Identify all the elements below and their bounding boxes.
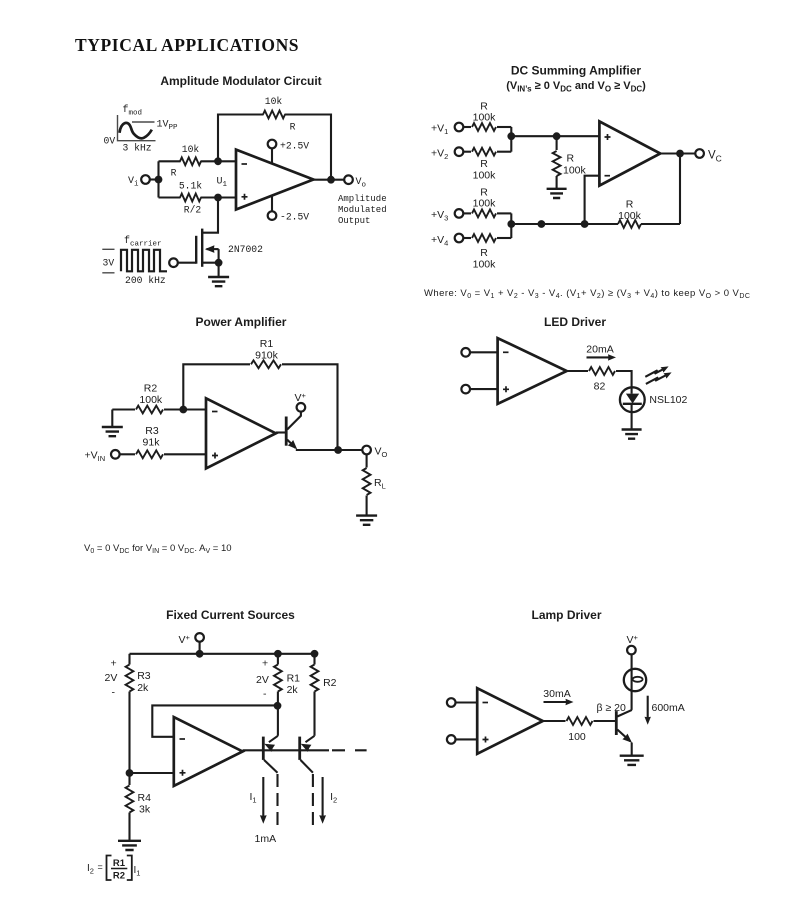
svg-text:fcarrier: fcarrier <box>124 235 162 249</box>
label 0V <box>104 136 116 147</box>
label R1 <box>260 338 274 350</box>
svg-text:R3: R3 <box>145 425 159 437</box>
lamp L1 <box>624 669 646 691</box>
label 100k (feedback U2) <box>618 210 642 222</box>
wire Q4 collector dashed <box>312 774 314 829</box>
resistor R 100k feedback <box>618 220 641 228</box>
wire to plus input <box>130 772 174 774</box>
svg-text:+V4: +V4 <box>431 234 448 248</box>
wire U3 output to base <box>276 431 286 433</box>
resistor R 100k (+V4) <box>472 234 496 242</box>
f_carrier reference levels <box>102 249 114 272</box>
svg-text:20mA: 20mA <box>586 344 613 356</box>
node rail R2 <box>311 650 319 658</box>
label +V2 <box>431 148 448 162</box>
svg-text:LED Driver: LED Driver <box>544 315 606 329</box>
resistor R1 2k (sources) <box>274 665 282 692</box>
wire Q1 source <box>202 262 218 264</box>
label 2V (R1) <box>256 674 269 686</box>
svg-text:100k: 100k <box>473 198 497 210</box>
label I2 <box>330 791 337 805</box>
svg-text:R3: R3 <box>137 670 151 682</box>
svg-text:R1: R1 <box>287 673 301 685</box>
ground R2 <box>102 410 123 437</box>
node V3/V4 join rail <box>507 220 515 228</box>
wire lamp non-inverting input <box>456 738 478 740</box>
node Q1 source <box>215 259 223 267</box>
arrow 600mA <box>645 696 651 725</box>
resistor R1 910k <box>251 360 281 368</box>
title condition line <box>506 80 646 94</box>
label f_carrier <box>124 235 162 249</box>
label 3V <box>103 258 115 269</box>
wire shunt R bottom <box>556 176 558 189</box>
plus sign U5 <box>180 770 186 776</box>
label R3 <box>145 425 159 437</box>
label I1 <box>250 791 257 805</box>
label R (+V3) <box>480 187 488 199</box>
wire inverting input leg <box>585 176 600 224</box>
svg-text:82: 82 <box>594 381 606 393</box>
svg-text:-: - <box>112 687 116 699</box>
svg-text:+: + <box>111 658 117 670</box>
svg-text:V0 = 0 VDC for VIN = 0 VDC. AV: V0 = 0 VDC for VIN = 0 VDC. AV = 10 <box>84 543 232 555</box>
wire U5 output line <box>243 749 329 751</box>
svg-text:VO: VO <box>375 446 388 460</box>
label R (+V4) <box>480 247 488 259</box>
wire R3 left <box>120 453 135 455</box>
resistor 82 <box>589 367 615 375</box>
minus sign U4 <box>503 351 509 353</box>
resistor RL <box>363 468 371 495</box>
ground LED <box>622 430 642 439</box>
op-amp U3 <box>206 398 276 468</box>
ground Q1 source <box>208 263 229 287</box>
svg-text:+VIN: +VIN <box>85 450 106 464</box>
svg-text:R/2: R/2 <box>184 205 202 216</box>
plus sign U2 <box>605 134 611 140</box>
svg-text:3V: 3V <box>103 258 115 269</box>
svg-text:I1: I1 <box>250 791 257 805</box>
wire +V2 lead <box>463 151 511 153</box>
label VO (power amp) <box>375 446 388 460</box>
svg-text:R: R <box>626 199 634 211</box>
wire feedback right leg <box>679 154 681 225</box>
svg-text:fmod: fmod <box>123 104 143 118</box>
title Lamp Driver <box>531 608 601 622</box>
transistor Q3 emitter <box>262 736 277 752</box>
page title TYPICAL APPLICATIONS <box>75 35 299 55</box>
label 2k (R1) <box>287 684 299 696</box>
wire +input node to drain <box>202 198 218 233</box>
wire U2 output <box>660 152 695 154</box>
label -2.5V <box>280 212 309 223</box>
transistor Q4 collector <box>300 760 313 773</box>
ground lamp driver <box>620 756 644 765</box>
transistor Q4 base bar <box>298 737 301 760</box>
svg-text:R: R <box>480 247 488 259</box>
node Vi split <box>155 161 163 197</box>
label R4 <box>138 792 152 804</box>
label R (+V2) <box>480 158 488 170</box>
transistor Q3 collector <box>264 760 278 773</box>
minus sign U3 <box>212 411 218 413</box>
transistor Q2 emitter <box>287 440 300 452</box>
svg-text:(VIN’s ≥ 0 VDC and VO ≥ VDC): (VIN’s ≥ 0 VDC and VO ≥ VDC) <box>506 80 646 94</box>
resistor R 100k (+V3) <box>472 210 496 218</box>
wire V1/V2 join <box>510 127 512 152</box>
transistor Q1 2N7002 gate bar <box>195 236 197 264</box>
terminal V+ (power amp) <box>297 403 306 412</box>
label Vi <box>128 176 139 189</box>
svg-text:Amplitude Modulator Circuit: Amplitude Modulator Circuit <box>160 74 321 88</box>
svg-text:1VPP: 1VPP <box>157 120 179 133</box>
wire R1 feedback <box>183 364 337 450</box>
wire top input branch <box>159 160 237 162</box>
terminal lamp inverting input <box>447 698 456 707</box>
terminal +VIN <box>111 450 120 459</box>
terminal -2.5V <box>268 195 277 220</box>
label 3 kHz <box>123 143 152 154</box>
svg-text:V+: V+ <box>295 391 307 404</box>
svg-text:3 kHz: 3 kHz <box>123 143 152 154</box>
f_mod sine wave <box>120 123 152 138</box>
label 10k (feedback) <box>265 96 283 107</box>
terminal V+ (sources) <box>195 633 204 642</box>
op-amp U6 <box>477 688 543 754</box>
node V1/V2 join <box>507 132 515 140</box>
svg-text:10k: 10k <box>182 144 200 155</box>
wire emitter to output <box>296 449 363 451</box>
LED D1 diode <box>623 394 642 430</box>
label 2V (R3) <box>105 672 118 684</box>
label 1 Vpp <box>157 120 179 133</box>
plus sign U6 <box>483 737 489 743</box>
f_mod waveform graph axes <box>118 115 156 141</box>
svg-text:100k: 100k <box>563 165 587 177</box>
svg-text:2V: 2V <box>256 674 269 686</box>
node output <box>327 176 335 184</box>
svg-text:NSL102: NSL102 <box>649 394 687 406</box>
node non-inverting input <box>214 194 222 202</box>
terminal LED non-inverting input <box>461 385 470 394</box>
svg-text:100k: 100k <box>473 112 497 124</box>
wire LED non-inverting input <box>470 388 498 390</box>
label 5.1k <box>179 181 202 192</box>
resistor R/2 5.1k <box>180 194 201 202</box>
svg-text:+V1: +V1 <box>431 123 448 137</box>
svg-text:=: = <box>98 862 103 872</box>
transistor Q2 base bar <box>285 417 288 446</box>
label R3 (sources) <box>137 670 151 682</box>
arrow 20mA <box>587 354 617 360</box>
svg-text:3k: 3k <box>139 804 151 816</box>
wire U6 output <box>543 720 617 722</box>
label 200 kHz <box>125 275 166 286</box>
svg-text:30mA: 30mA <box>543 688 570 700</box>
svg-text:2k: 2k <box>137 682 149 694</box>
svg-text:5.1k: 5.1k <box>179 181 202 192</box>
wire R2 left <box>112 408 135 410</box>
label f_mod <box>123 104 143 118</box>
svg-text:-: - <box>263 688 267 700</box>
resistor R3 91k <box>136 450 163 458</box>
wire U1 output <box>313 179 344 181</box>
wire summing to op-amp <box>511 135 599 137</box>
wire +V3 lead <box>463 212 511 214</box>
node rail B <box>581 220 589 228</box>
label R2 <box>144 383 158 395</box>
svg-text:V+: V+ <box>627 633 639 646</box>
svg-text:600mA: 600mA <box>652 702 685 714</box>
label 100k (R2) <box>139 394 163 406</box>
wire U5 feedback <box>152 705 277 736</box>
resistor R4 3k <box>126 773 134 813</box>
label V+ (lamp) <box>627 633 639 646</box>
svg-text:910k: 910k <box>255 350 279 362</box>
op-amp U2 <box>599 121 660 185</box>
wire bottom input branch <box>159 196 237 198</box>
wire RL top <box>366 454 368 467</box>
wire R1 branch bottom <box>277 692 279 736</box>
wire lamp inverting input <box>456 701 478 703</box>
node U2 output <box>676 150 684 158</box>
svg-text:2V: 2V <box>105 672 118 684</box>
wire R3 branch top <box>128 654 130 665</box>
svg-text:-2.5V: -2.5V <box>280 212 309 223</box>
label Amplitude Modulated Output <box>338 194 387 226</box>
label V+ (power amp) <box>295 391 307 404</box>
svg-text:200 kHz: 200 kHz <box>125 275 166 286</box>
ground shunt <box>547 189 567 198</box>
arrow 30mA <box>544 699 574 705</box>
ground R4 <box>118 813 141 851</box>
label + (R1) <box>262 658 268 670</box>
svg-text:91k: 91k <box>143 436 161 448</box>
terminal VO (power amp) <box>362 446 371 455</box>
label 2k (R3) <box>137 682 149 694</box>
svg-text:VC: VC <box>708 150 722 164</box>
f_carrier square wave <box>121 250 167 271</box>
label - (R3) <box>112 687 116 699</box>
title Fixed Current Sources <box>166 608 295 622</box>
transistor Q5 emitter <box>617 730 634 746</box>
svg-text:100: 100 <box>568 731 586 743</box>
svg-text:+V3: +V3 <box>431 209 448 223</box>
wire top rail <box>130 653 315 655</box>
label 10k (input R) <box>182 144 200 155</box>
transistor Q5 base bar <box>615 711 618 735</box>
resistor R2 (sources) <box>311 665 319 692</box>
terminal carrier input <box>169 258 178 267</box>
label U1 <box>217 177 228 190</box>
label R2 (sources) <box>323 677 337 689</box>
label 100k (+V2) <box>473 170 497 182</box>
svg-text:Fixed Current Sources: Fixed Current Sources <box>166 608 295 622</box>
resistor 100 (lamp) <box>567 717 593 725</box>
ground RL <box>356 496 377 525</box>
svg-text:I1: I1 <box>134 865 141 878</box>
svg-text:Where: V0 = V1 + V2 - V3 - V4.: Where: V0 = V1 + V2 - V3 - V4. (V1+ V2) … <box>424 288 750 300</box>
note power amp gain <box>84 543 232 555</box>
svg-text:R2: R2 <box>323 677 337 689</box>
op-amp U1 <box>236 150 313 210</box>
svg-text:R4: R4 <box>138 792 152 804</box>
svg-text:+V2: +V2 <box>431 148 448 162</box>
wire R2 branch bottom <box>313 692 315 736</box>
label +V3 <box>431 209 448 223</box>
plus sign U1 <box>242 194 248 200</box>
wire Q3 collector dashed <box>276 774 278 829</box>
svg-text:Vo: Vo <box>356 177 367 190</box>
label 3k <box>139 804 151 816</box>
transistor Q5 collector <box>617 710 632 717</box>
label +VIN <box>85 450 106 464</box>
wire output line dashed <box>332 749 367 751</box>
svg-text:Amplitude: Amplitude <box>338 194 387 204</box>
label 100k (+V1) <box>473 112 497 124</box>
transistor Q4 emitter <box>299 736 315 752</box>
svg-text:R: R <box>567 153 575 165</box>
minus sign U6 <box>483 702 489 704</box>
wire carrier input to gate <box>178 262 196 264</box>
light arrow 1 <box>645 364 670 377</box>
wire +V4 lead <box>463 237 511 239</box>
note where clause <box>424 288 750 300</box>
label 30mA <box>543 688 570 700</box>
resistor R3 2k <box>126 665 134 692</box>
op-amp U4 <box>498 338 567 404</box>
light arrow 2 <box>646 370 673 384</box>
label 100k (shunt) <box>563 165 587 177</box>
terminal lamp non-inverting input <box>447 735 456 744</box>
label +V1 <box>431 123 448 137</box>
minus sign U5 <box>180 738 186 740</box>
wire shunt R top <box>556 136 558 150</box>
svg-text:R1: R1 <box>260 338 274 350</box>
wire feedback loop <box>218 115 331 180</box>
wire +V1 lead <box>463 126 511 128</box>
svg-text:R: R <box>290 122 296 133</box>
wire R1 branch top <box>277 654 279 665</box>
svg-text:+: + <box>262 658 268 670</box>
svg-text:R2: R2 <box>144 383 158 395</box>
svg-text:Power Amplifier: Power Amplifier <box>196 315 287 329</box>
wire R2 branch top <box>313 654 315 665</box>
terminal +V1 <box>455 123 464 132</box>
label - (R1) <box>263 688 267 700</box>
label R (input) <box>171 168 177 179</box>
node feedback to R1 <box>274 702 282 710</box>
svg-text:U1: U1 <box>217 177 228 190</box>
svg-text:β ≥ 20: β ≥ 20 <box>597 702 626 714</box>
node output (power amp) <box>334 446 342 454</box>
label 100k (+V3) <box>473 198 497 210</box>
terminal Vo <box>344 175 353 184</box>
plus sign U4 <box>503 386 509 392</box>
transistor Q1 2N7002 channel bar <box>201 229 203 267</box>
terminal VC <box>695 149 704 158</box>
svg-text:R1: R1 <box>113 858 126 869</box>
label beta >= 20 <box>597 702 626 714</box>
label 2N7002 <box>228 244 263 255</box>
wire U4 output <box>567 371 632 394</box>
terminal +2.5V <box>268 140 277 164</box>
svg-text:RL: RL <box>374 477 386 491</box>
svg-text:TYPICAL APPLICATIONS: TYPICAL APPLICATIONS <box>75 35 299 55</box>
label 600mA <box>652 702 685 714</box>
svg-text:R: R <box>171 168 177 179</box>
svg-text:Output: Output <box>338 216 370 226</box>
transistor Q1 body diode arrow <box>205 245 219 262</box>
arrow I2 <box>319 777 326 824</box>
terminal +V4 <box>455 234 464 243</box>
terminal V+ (lamp) <box>627 646 636 655</box>
op-amp U5 <box>174 717 243 786</box>
svg-text:100k: 100k <box>473 259 497 271</box>
label R (+V1) <box>480 101 488 113</box>
label +V4 <box>431 234 448 248</box>
label NSL102 <box>649 394 687 406</box>
terminal +V2 <box>455 147 464 156</box>
label + (R3) <box>111 658 117 670</box>
node V+ rail <box>196 650 204 658</box>
resistor R 100k (+V1) <box>472 123 496 131</box>
terminal Vi <box>141 175 150 184</box>
svg-text:Modulated: Modulated <box>338 205 387 215</box>
label 20mA <box>586 344 613 356</box>
resistor R 100k shunt <box>553 151 561 176</box>
wire R3 right <box>164 453 206 455</box>
label 91k <box>143 436 161 448</box>
svg-text:V+: V+ <box>179 633 191 646</box>
svg-text:Lamp Driver: Lamp Driver <box>531 608 601 622</box>
svg-text:+2.5V: +2.5V <box>280 141 309 152</box>
minus sign U1 <box>242 163 248 165</box>
node rail R1 <box>274 650 282 658</box>
transistor Q3 base bar <box>262 737 265 760</box>
wire feedback bottom rail <box>511 223 680 225</box>
svg-text:0V: 0V <box>104 136 116 147</box>
label V+ (sources) <box>179 633 191 646</box>
label R (feedback U2) <box>626 199 634 211</box>
svg-text:2k: 2k <box>287 684 299 696</box>
resistor R 10k (input) <box>180 157 201 165</box>
wire lamp to V+ <box>631 654 633 710</box>
svg-text:I2: I2 <box>87 863 94 876</box>
label RL <box>374 477 386 491</box>
label 1mA <box>255 833 277 845</box>
label 100 (lamp) <box>568 731 586 743</box>
svg-text:R: R <box>480 158 488 170</box>
minus sign U2 <box>605 175 611 177</box>
title Amplitude Modulator Circuit <box>160 74 321 88</box>
label R (shunt) <box>567 153 575 165</box>
transistor Q2 collector <box>287 412 301 430</box>
wire R3 branch bottom <box>128 692 130 774</box>
terminal +V3 <box>455 209 464 218</box>
svg-text:100k: 100k <box>618 210 642 222</box>
svg-text:I2: I2 <box>330 791 337 805</box>
wire V+ stub <box>199 642 201 654</box>
label +2.5V <box>280 141 309 152</box>
label 910k <box>255 350 279 362</box>
label R/2 <box>184 205 202 216</box>
node shunt tap <box>553 132 561 140</box>
label R (feedback) <box>290 122 296 133</box>
node plus input junction <box>126 769 134 777</box>
wire Vi to split node <box>150 178 159 180</box>
